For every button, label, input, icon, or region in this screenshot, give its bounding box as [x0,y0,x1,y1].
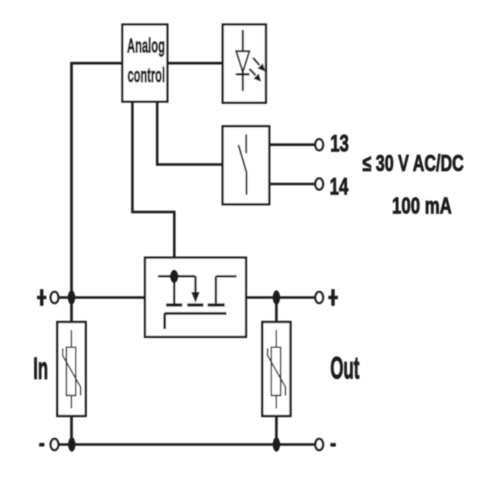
varistor In top lead [70,330,72,347]
junction dot left - [68,437,75,451]
MOSFET drain lead down [215,276,217,303]
- rail bottom [59,443,315,446]
varistor Out element rect [271,347,280,395]
varistor In bottom lead [70,396,72,409]
MOSFET channel dash right [208,303,225,306]
MOSFET body arrow [191,276,200,303]
svg-text:13: 13 [330,131,349,158]
terminal circle + right [315,292,323,303]
wire Analog control left stub down to MOSFET box top [132,102,174,258]
+ rail left [59,296,145,299]
varistor Out diagonal [268,348,286,395]
switch top contact [245,134,247,153]
switch box [223,126,270,204]
wire right varistor bottom stub [275,416,278,445]
terminal circle - left [51,439,59,450]
MOSFET source bar top [158,275,196,277]
wire right junction down to varistor Out [275,298,278,323]
switch blade [238,145,246,172]
wire to terminal 13 [269,143,315,146]
MOSFET drain bar top right [216,275,237,277]
terminal circle + left [51,292,59,303]
terminal circle 13 [315,139,323,150]
terminal circle - right [315,439,323,450]
LED triangle [236,51,249,72]
LED cathode bar [236,73,250,75]
LED symbol vertical lead [242,30,244,91]
wire left varistor bottom stub [70,416,73,445]
varistor Out top lead [275,330,277,347]
svg-text:Out: Out [330,351,360,386]
varistor In element rect [66,347,75,395]
svg-text:100 mA: 100 mA [392,194,452,219]
minus mark left [39,443,44,447]
MOSFET junction dot [170,270,178,283]
MOSFET channel dash left [166,303,182,306]
svg-text:Analog: Analog [127,35,165,57]
Analog control box U1 [122,25,167,102]
plus mark left [37,289,46,306]
plus mark right [328,289,338,306]
LED optocoupler box [223,25,266,103]
MOSFET switch box Q1 [145,258,246,337]
wire Analog control right stub down to switch box [157,102,222,165]
wire to terminal 14 [269,183,315,186]
minus mark right [330,443,335,447]
junction dot right - [273,437,280,451]
varistor Out bottom lead [275,396,277,409]
svg-text:In: In [33,351,48,386]
svg-text:14: 14 [330,174,349,201]
varistor In diagonal [63,348,81,395]
svg-text:control: control [128,64,166,86]
MOSFET gate bar [164,312,226,315]
svg-text:≤ 30 V AC/DC: ≤ 30 V AC/DC [363,151,464,176]
wire Analog control to LED box [167,62,222,65]
junction dot right + [273,290,280,304]
MOSFET channel dash middle [187,303,203,306]
wire left junction down to varistor In [70,298,73,323]
+ rail right [246,296,315,299]
switch bottom contact [246,172,248,195]
MOSFET gate lead [163,313,166,329]
LED arrow 2 [249,69,261,82]
varistor box Out [262,322,290,416]
MOSFET source lead down [173,276,175,303]
LED arrow 1 [253,58,265,72]
varistor box In [57,322,85,416]
junction dot left + [68,290,75,304]
wire left riser from + rail up and over to Analog control box [72,63,123,297]
terminal circle 14 [315,178,323,189]
